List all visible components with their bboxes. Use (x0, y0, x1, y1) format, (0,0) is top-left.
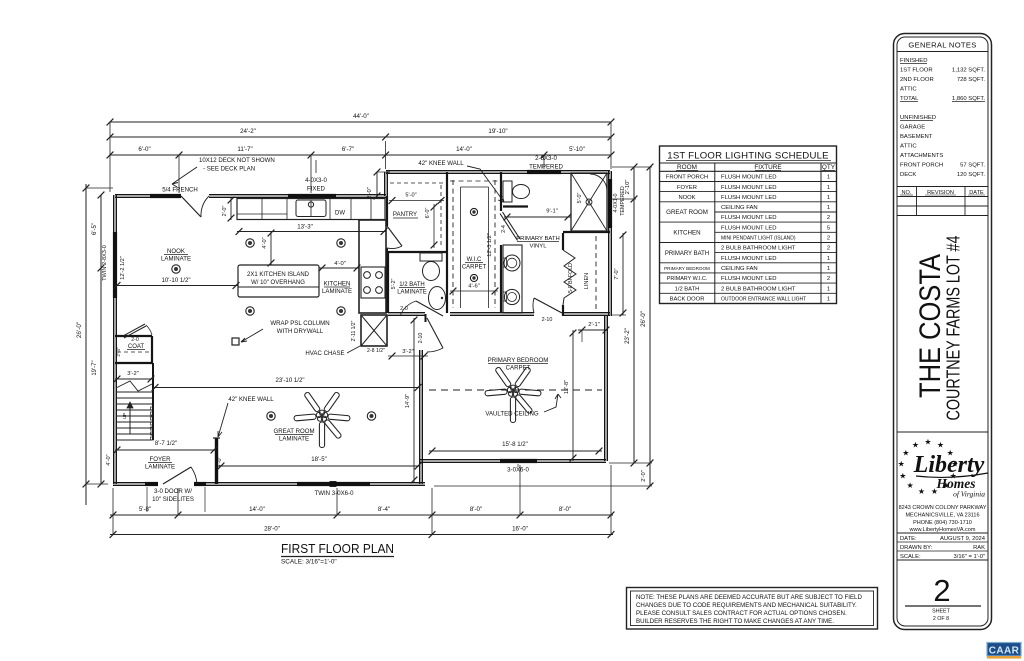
svg-text:★: ★ (924, 438, 931, 447)
svg-text:FIRST FLOOR PLAN: FIRST FLOOR PLAN (281, 542, 394, 556)
svg-text:1,132 SQFT.: 1,132 SQFT. (952, 68, 985, 74)
svg-text:2'-1": 2'-1" (588, 322, 600, 328)
svg-text:8'-0": 8'-0" (470, 506, 482, 513)
svg-text:26'-0": 26'-0" (640, 311, 647, 327)
svg-text:4-0X1-0: 4-0X1-0 (613, 194, 619, 213)
svg-text:5/4 FRENCH: 5/4 FRENCH (162, 187, 198, 194)
svg-text:MINI PENDANT LIGHT (ISLAND): MINI PENDANT LIGHT (ISLAND) (721, 236, 796, 242)
svg-text:1,860 SQFT.: 1,860 SQFT. (952, 96, 985, 102)
svg-text:6'-7": 6'-7" (342, 146, 354, 153)
svg-text:FINISHED: FINISHED (900, 58, 928, 64)
hvac chase (361, 315, 387, 346)
wall WIC left (446, 172, 448, 313)
svg-text:19'-7": 19'-7" (92, 360, 98, 375)
svg-text:MECHANICSVILLE, VA 23116: MECHANICSVILLE, VA 23116 (905, 513, 979, 519)
svg-text:PLEASE CONSULT SALES CONTRACT: PLEASE CONSULT SALES CONTRACT FOR ACTUAL… (636, 610, 847, 617)
svg-text:28'-0": 28'-0" (264, 526, 280, 533)
wall top-right exterior (386, 170, 610, 172)
svg-text:of Virginia: of Virginia (953, 490, 985, 499)
svg-text:2-0: 2-0 (131, 337, 139, 343)
svg-text:NOOK: NOOK (167, 248, 185, 255)
svg-text:TEMPERED: TEMPERED (620, 186, 626, 216)
svg-text:www.LibertyHomesVA.com: www.LibertyHomesVA.com (909, 527, 976, 533)
svg-text:2'-0": 2'-0" (222, 206, 228, 217)
dimension 2'-10" / 23'-2" right (633, 167, 635, 463)
svg-text:18'-5": 18'-5" (311, 456, 327, 463)
svg-text:W/ 10" OVERHANG: W/ 10" OVERHANG (251, 280, 305, 286)
svg-text:8'-7 1/2": 8'-7 1/2" (155, 440, 177, 447)
coat rod dashed (117, 351, 150, 353)
svg-text:2'-11 1/2": 2'-11 1/2" (351, 320, 357, 341)
door foyer entry swing (163, 467, 191, 484)
wall kitchen/pantry vertical (386, 196, 388, 226)
fan great room (323, 392, 340, 413)
svg-text:GREAT ROOM: GREAT ROOM (666, 209, 708, 216)
window 3-0X6-0 bedroom (500, 459, 537, 463)
svg-text:WRAP PSL COLUMN: WRAP PSL COLUMN (270, 320, 329, 327)
svg-text:PRIMARY BATH: PRIMARY BATH (665, 251, 709, 257)
svg-text:CAAR: CAAR (989, 646, 1020, 657)
light nook (172, 265, 180, 273)
svg-text:FLUSH MOUNT LED: FLUSH MOUNT LED (721, 256, 777, 262)
svg-text:HVAC CHASE: HVAC CHASE (305, 350, 344, 357)
svg-text:★: ★ (912, 440, 919, 449)
svg-text:2-4: 2-4 (501, 225, 507, 233)
svg-text:2 OF 8: 2 OF 8 (933, 616, 949, 622)
wall bath/linen vertical (562, 233, 564, 250)
stairs (152, 363, 154, 440)
svg-text:CARPET: CARPET (462, 265, 487, 271)
kitchen sink (296, 200, 326, 217)
svg-text:1ST FLOOR: 1ST FLOOR (900, 68, 933, 74)
wall bottom great room (113, 482, 145, 484)
svg-text:VAULTED CEILING: VAULTED CEILING (485, 411, 539, 418)
svg-text:FRONT PORCH: FRONT PORCH (666, 175, 708, 181)
svg-text:UP: UP (122, 413, 127, 419)
svg-text:PRIMARY BATH: PRIMARY BATH (516, 236, 560, 242)
wall hall top (bath & wic bottom) (388, 312, 425, 314)
svg-text:8'-0": 8'-0" (559, 506, 571, 513)
svg-text:1: 1 (827, 185, 830, 191)
door primary bath angled (500, 214, 518, 241)
dimension 26'-0" left (85, 184, 87, 505)
svg-text:FRONT PORCH: FRONT PORCH (900, 163, 943, 169)
svg-text:7'-0": 7'-0" (614, 268, 620, 279)
window 2-8X3-0 tempered (527, 170, 561, 174)
wall kitchen column (359, 220, 386, 313)
primary bath toilet (503, 181, 512, 202)
svg-text:2ND FLOOR: 2ND FLOOR (900, 77, 934, 83)
svg-text:2X1 KITCHEN ISLAND: 2X1 KITCHEN ISLAND (247, 272, 310, 278)
title block border (894, 34, 992, 630)
knee wall foyer (215, 438, 218, 484)
lights great room (267, 412, 275, 420)
svg-text:BACK DOOR: BACK DOOR (670, 297, 705, 303)
svg-text:2: 2 (827, 236, 830, 242)
svg-text:LAMINATE: LAMINATE (322, 288, 352, 295)
window 4-0X1-0 tempered (608, 179, 612, 228)
svg-text:UNFINISHED: UNFINISHED (900, 115, 936, 121)
svg-text:W.I.C: W.I.C (467, 257, 482, 263)
svg-text:4'-0": 4'-0" (262, 237, 268, 248)
svg-text:★: ★ (899, 471, 906, 480)
svg-text:2-0: 2-0 (400, 306, 408, 312)
wall right bedroom (604, 315, 606, 461)
svg-text:1: 1 (827, 256, 830, 262)
svg-text:RAK: RAK (973, 545, 985, 551)
svg-text:VINYL: VINYL (529, 244, 547, 250)
svg-text:1: 1 (827, 286, 830, 292)
range (361, 267, 385, 298)
svg-text:ATTIC: ATTIC (900, 87, 917, 93)
svg-text:11'-7": 11'-7" (237, 146, 252, 153)
svg-text:COAT: COAT (128, 344, 145, 350)
svg-text:FOYER: FOYER (150, 456, 172, 463)
svg-text:COURTNEY FARMS LOT #4: COURTNEY FARMS LOT #4 (944, 236, 964, 421)
toilet stub wall (503, 205, 528, 207)
wall WIC right / bath left (500, 172, 502, 211)
svg-text:2: 2 (827, 246, 830, 252)
svg-text:TEMPERED: TEMPERED (529, 164, 563, 171)
svg-text:4'-0": 4'-0" (334, 261, 346, 267)
svg-text:3-0 DOOR W/: 3-0 DOOR W/ (154, 488, 192, 495)
linen bifold door (563, 250, 576, 305)
wall left exterior (113, 195, 115, 484)
svg-text:1: 1 (827, 205, 830, 211)
svg-text:LAMINATE: LAMINATE (397, 290, 427, 296)
dimension row 6'-0" 11'-7" 6'-7" 14'-0" 5'-10" (110, 154, 611, 156)
svg-text:NOOK: NOOK (678, 195, 695, 201)
dimension row 28'-0" / 16'-0" (110, 534, 613, 536)
svg-text:5'-10": 5'-10" (569, 146, 585, 153)
svg-text:2-8X3-0: 2-8X3-0 (535, 155, 557, 162)
svg-text:SHEET: SHEET (932, 609, 950, 615)
svg-text:★: ★ (937, 440, 944, 449)
svg-text:8'-4": 8'-4" (378, 506, 390, 513)
svg-text:BUILDER RESERVES THE RIGHT TO: BUILDER RESERVES THE RIGHT TO MAKE CHANG… (636, 618, 834, 625)
primary bath vanity (503, 245, 522, 313)
svg-text:3/16" = 1'-0": 3/16" = 1'-0" (954, 554, 986, 560)
svg-text:FLUSH MOUNT LED: FLUSH MOUNT LED (721, 225, 777, 231)
svg-text:LINEN: LINEN (584, 273, 590, 289)
door pantry swing (387, 226, 402, 246)
window 5/4 french sill (150, 194, 181, 198)
door hall angled (416, 301, 443, 316)
svg-text:5'-8": 5'-8" (139, 506, 151, 513)
svg-text:SCALE: 3/16"=1'-0": SCALE: 3/16"=1'-0" (281, 559, 337, 566)
door foyer entry sidelites (145, 482, 158, 486)
svg-text:ATTACHMENTS: ATTACHMENTS (900, 153, 943, 159)
door bedroom entry stub (425, 314, 427, 322)
caar logo (987, 643, 1021, 657)
door back entry swing (534, 298, 562, 313)
svg-text:14'-9": 14'-9" (405, 394, 411, 408)
svg-text:10" SIDELITES: 10" SIDELITES (152, 496, 194, 503)
svg-text:23'-2": 23'-2" (624, 328, 631, 344)
svg-text:LAMINATE: LAMINATE (279, 436, 309, 443)
svg-text:8243 CROWN COLONY PARKWAY: 8243 CROWN COLONY PARKWAY (899, 505, 987, 511)
svg-text:1/2 BATH: 1/2 BATH (399, 282, 425, 288)
window twin 2-8X3-0 (113, 232, 117, 298)
svg-text:ATTIC: ATTIC (900, 144, 917, 150)
svg-text:3'-2": 3'-2" (127, 371, 139, 377)
svg-text:CEILING FAN: CEILING FAN (721, 205, 758, 211)
svg-text:LAMINATE: LAMINATE (161, 256, 191, 263)
svg-text:DECK: DECK (900, 172, 916, 178)
svg-text:FLUSH MOUNT LED: FLUSH MOUNT LED (721, 276, 777, 282)
svg-text:5'-0": 5'-0" (405, 193, 416, 199)
svg-text:2-10: 2-10 (542, 317, 553, 323)
svg-text:FIXTURE: FIXTURE (754, 164, 781, 171)
svg-text:57 SQFT.: 57 SQFT. (960, 163, 985, 169)
svg-text:KITCHEN: KITCHEN (324, 281, 351, 288)
svg-text:PRIMARY BEDROOM: PRIMARY BEDROOM (488, 357, 549, 364)
svg-text:PRIMARY BEDROOM: PRIMARY BEDROOM (664, 266, 710, 271)
svg-text:GARAGE: GARAGE (900, 125, 925, 131)
fan primary bedroom (514, 367, 531, 388)
svg-text:23'-10 1/2": 23'-10 1/2" (275, 377, 304, 384)
svg-text:QTY: QTY (822, 164, 836, 171)
kitchen island (238, 265, 319, 297)
svg-text:2 BULB BATHROOM LIGHT: 2 BULB BATHROOM LIGHT (721, 286, 796, 292)
wall half bath left (387, 252, 389, 313)
svg-text:2-8 1/2": 2-8 1/2" (367, 348, 385, 354)
svg-text:ROOM: ROOM (677, 164, 697, 171)
svg-text:26'-0": 26'-0" (76, 322, 83, 338)
svg-text:728 SQFT.: 728 SQFT. (957, 77, 986, 83)
svg-text:2: 2 (933, 573, 950, 608)
svg-text:6'-0": 6'-0" (138, 146, 150, 153)
svg-text:24'-2": 24'-2" (240, 128, 256, 135)
vaulted ceiling dashed line (429, 389, 602, 391)
wall jog vertical (384, 172, 386, 196)
svg-text:★: ★ (902, 448, 909, 457)
svg-text:15'-8 1/2": 15'-8 1/2" (502, 441, 528, 448)
svg-text:9'-1": 9'-1" (546, 209, 558, 215)
wall top-left exterior (115, 194, 181, 196)
svg-text:AUGUST 9, 2024: AUGUST 9, 2024 (940, 536, 986, 542)
pantry shelves dashed (390, 182, 443, 184)
svg-text:19'-10": 19'-10" (488, 128, 507, 135)
window twin 3-0X6-0 (297, 482, 370, 486)
svg-text:CHANGES DUE TO CODE REQUIREMEN: CHANGES DUE TO CODE REQUIREMENTS AND MEC… (636, 602, 857, 609)
svg-text:PANTRY: PANTRY (393, 211, 417, 218)
revision table (897, 186, 988, 188)
svg-text:BASEMENT: BASEMENT (900, 134, 933, 140)
half bath sink (429, 287, 446, 310)
svg-text:1: 1 (827, 266, 830, 272)
svg-text:★: ★ (918, 487, 925, 496)
svg-text:CEILING FAN: CEILING FAN (721, 266, 758, 272)
wall bottom bedroom (420, 459, 606, 461)
note box (627, 588, 878, 630)
svg-text:5'-2": 5'-2" (391, 279, 397, 290)
svg-text:GREAT ROOM: GREAT ROOM (273, 428, 314, 435)
dimension 44'-0" overall width (110, 121, 611, 123)
svg-text:1ST FLOOR LIGHTING SCHEDULE: 1ST FLOOR LIGHTING SCHEDULE (667, 151, 828, 162)
svg-text:FIXED: FIXED (307, 186, 326, 193)
date drawn scale rows (897, 532, 988, 534)
door coat (123, 324, 145, 336)
svg-text:TOTAL: TOTAL (900, 96, 919, 102)
svg-text:4'-6": 4'-6" (468, 284, 480, 290)
svg-text:120 SQFT.: 120 SQFT. (957, 172, 986, 178)
svg-text:2'-4": 2'-4" (116, 347, 121, 357)
table 1st floor lighting schedule (660, 146, 837, 304)
svg-text:10X12 DECK NOT SHOWN: 10X12 DECK NOT SHOWN (199, 157, 275, 164)
svg-text:3-0X6-0: 3-0X6-0 (507, 467, 529, 474)
wic shelf lines (460, 187, 462, 308)
svg-text:- SEE DECK PLAN: - SEE DECK PLAN (203, 166, 255, 173)
svg-text:12'-8": 12'-8" (564, 380, 570, 394)
svg-text:OUTDOOR ENTRANCE WALL LIGHT: OUTDOOR ENTRANCE WALL LIGHT (721, 297, 806, 303)
dimension row 5'-8" 14'-0" 8'-4" 8'-0" 8'-0" (110, 514, 613, 516)
svg-text:2-10: 2-10 (418, 333, 424, 344)
svg-text:FLUSH MOUNT LED: FLUSH MOUNT LED (721, 185, 777, 191)
svg-text:16'-0": 16'-0" (512, 526, 528, 533)
half bath toilet (420, 253, 442, 261)
svg-text:5-0 BI-FOLD: 5-0 BI-FOLD (568, 263, 574, 293)
wall pantry bottom (387, 251, 446, 253)
lights wic (470, 208, 477, 215)
svg-text:42" KNEE WALL: 42" KNEE WALL (228, 396, 274, 403)
svg-text:DW: DW (335, 211, 345, 217)
svg-text:2 BULB BATHROOM LIGHT: 2 BULB BATHROOM LIGHT (721, 246, 796, 252)
wic rods dashed (452, 180, 454, 308)
svg-text:44'-0": 44'-0" (353, 113, 369, 120)
door french swing (181, 196, 201, 217)
svg-text:PRIMARY W.I.C.: PRIMARY W.I.C. (667, 276, 708, 282)
dimension 26'-0" / 2'-0" right (649, 167, 651, 486)
svg-text:FLUSH MOUNT LED: FLUSH MOUNT LED (721, 175, 777, 181)
svg-text:6'-5": 6'-5" (92, 223, 98, 235)
svg-text:WITH DRYWALL: WITH DRYWALL (277, 328, 324, 335)
lights kitchen row (246, 239, 254, 247)
kitchen counter top (237, 199, 385, 220)
svg-text:1: 1 (827, 175, 830, 181)
svg-text:THE COSTA: THE COSTA (914, 254, 947, 398)
wall coat closet (115, 335, 152, 337)
svg-text:14'-0": 14'-0" (249, 506, 265, 513)
svg-text:4'-0": 4'-0" (106, 454, 112, 465)
wall bedroom left (419, 350, 421, 484)
svg-text:13'-3": 13'-3" (297, 224, 313, 231)
svg-text:2: 2 (827, 215, 830, 221)
svg-text:TWIN 2-8X3-0: TWIN 2-8X3-0 (102, 245, 108, 281)
svg-text:1: 1 (827, 297, 830, 303)
wall shower bottom / linen top (563, 231, 610, 233)
svg-text:10'-10 1/2": 10'-10 1/2" (161, 277, 190, 284)
svg-text:GENERAL NOTES: GENERAL NOTES (908, 41, 976, 50)
svg-text:12'-3 1/2": 12'-3 1/2" (487, 233, 493, 257)
svg-text:DATE:: DATE: (900, 536, 917, 542)
svg-text:DRAWN BY:: DRAWN BY: (900, 545, 933, 551)
svg-text:★: ★ (898, 460, 905, 469)
dimension 14'-9" (413, 318, 415, 482)
dimension 7'-0" linen (622, 233, 624, 315)
svg-text:★: ★ (907, 481, 914, 490)
shower (571, 173, 607, 231)
svg-text:FLUSH MOUNT LED: FLUSH MOUNT LED (721, 195, 777, 201)
svg-text:14'-0": 14'-0" (456, 146, 472, 153)
svg-text:42" KNEE WALL: 42" KNEE WALL (418, 160, 464, 167)
dimension row 24'-2" / 19'-10" (110, 136, 611, 138)
svg-text:12'-2 1/2": 12'-2 1/2" (120, 256, 126, 280)
svg-text:KITCHEN: KITCHEN (673, 230, 700, 237)
svg-text:2: 2 (827, 276, 830, 282)
svg-text:PHONE (804) 730-1710: PHONE (804) 730-1710 (913, 520, 972, 526)
svg-text:TWIN 3-0X6-0: TWIN 3-0X6-0 (315, 490, 355, 497)
linen rod dashed (595, 236, 597, 312)
wall right exterior upper (608, 171, 610, 316)
svg-text:LAMINATE: LAMINATE (145, 464, 175, 471)
svg-text:Liberty: Liberty (913, 452, 985, 478)
svg-text:4-0X3-0: 4-0X3-0 (305, 177, 327, 184)
svg-text:FOYER: FOYER (677, 185, 697, 191)
svg-text:FLUSH MOUNT LED: FLUSH MOUNT LED (721, 215, 777, 221)
svg-text:3'-2": 3'-2" (402, 349, 414, 355)
svg-text:1/2 BATH: 1/2 BATH (675, 286, 700, 292)
svg-text:2'-0": 2'-0" (641, 470, 647, 482)
svg-text:NOTE: THESE PLANS ARE DEEMED A: NOTE: THESE PLANS ARE DEEMED ACCURATE BU… (636, 594, 862, 601)
svg-text:5'-0": 5'-0" (577, 193, 583, 204)
window 4-0X3-0 fixed (288, 194, 336, 198)
svg-text:6'-0": 6'-0" (425, 208, 431, 219)
svg-text:SCALE:: SCALE: (900, 554, 921, 560)
svg-text:1: 1 (827, 195, 830, 201)
dimension 6'-5" / 19'-7" left (100, 195, 102, 484)
column wrap psl (232, 338, 239, 345)
door bedroom swing (427, 318, 443, 348)
